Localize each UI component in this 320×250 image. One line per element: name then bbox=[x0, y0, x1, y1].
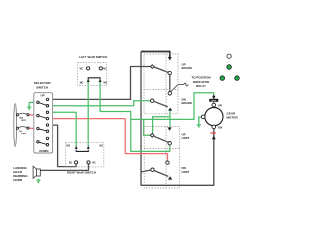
svg-text:RIGHT WoW SWITCH: RIGHT WoW SWITCH bbox=[67, 171, 96, 175]
svg-text:NO: NO bbox=[67, 145, 71, 148]
svg-text:HORN: HORN bbox=[13, 178, 22, 182]
svg-text:SWITCH: SWITCH bbox=[36, 85, 49, 89]
svg-text:UP: UP bbox=[218, 103, 222, 107]
svg-text:UP: UP bbox=[40, 94, 44, 98]
svg-text:MTR: MTR bbox=[21, 120, 26, 122]
svg-text:NO: NO bbox=[80, 82, 84, 85]
svg-text:DN: DN bbox=[218, 125, 222, 129]
svg-text:NC: NC bbox=[69, 161, 73, 164]
svg-text:WHT: WHT bbox=[211, 100, 217, 102]
svg-text:LIMIT: LIMIT bbox=[182, 136, 190, 140]
svg-text:LIMIT: LIMIT bbox=[182, 170, 190, 174]
svg-text:NC: NC bbox=[92, 161, 96, 164]
svg-text:NC: NC bbox=[103, 67, 107, 70]
svg-text:NO: NO bbox=[99, 145, 103, 148]
svg-text:RED: RED bbox=[211, 131, 217, 135]
svg-text:RELAY: RELAY bbox=[196, 84, 206, 88]
svg-text:LEFT WoW SWITCH: LEFT WoW SWITCH bbox=[79, 55, 107, 59]
svg-text:DOWN: DOWN bbox=[39, 149, 48, 153]
svg-text:NC: NC bbox=[80, 67, 84, 70]
svg-text:NO: NO bbox=[104, 82, 108, 85]
svg-text:MOTOR: MOTOR bbox=[227, 116, 239, 120]
svg-text:BRAKE: BRAKE bbox=[182, 66, 193, 70]
svg-text:BRAKE: BRAKE bbox=[182, 101, 193, 105]
svg-text:HRN: HRN bbox=[21, 133, 26, 135]
